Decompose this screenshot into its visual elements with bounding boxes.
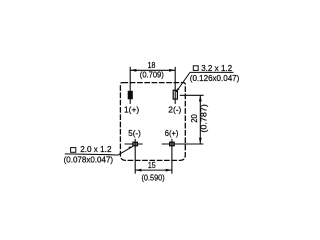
- svg-text:6(+): 6(+): [165, 128, 179, 138]
- svg-text:3.2 x 1.2: 3.2 x 1.2: [201, 63, 232, 73]
- svg-text:(0.590): (0.590): [142, 172, 165, 182]
- svg-text:18: 18: [148, 60, 156, 70]
- svg-text:1(+): 1(+): [124, 105, 139, 115]
- svg-text:5(-): 5(-): [128, 128, 141, 138]
- svg-text:15: 15: [148, 160, 156, 170]
- svg-text:(0.126x0.047): (0.126x0.047): [190, 73, 240, 83]
- svg-text:(0.709): (0.709): [140, 70, 164, 80]
- svg-text:2(-): 2(-): [168, 105, 181, 115]
- svg-text:(0.078x0.047): (0.078x0.047): [64, 154, 114, 164]
- svg-text:(0.787): (0.787): [199, 104, 209, 133]
- svg-text:2.0 x 1.2: 2.0 x 1.2: [80, 144, 112, 154]
